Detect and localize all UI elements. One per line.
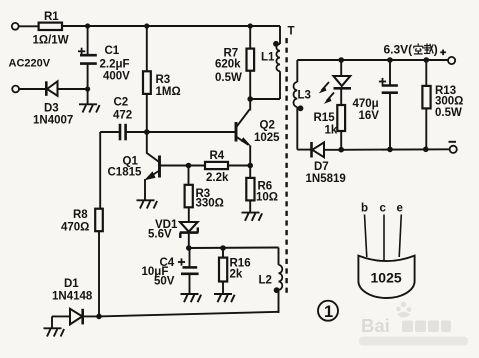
node Q2 emitter / R4 / R6 bbox=[247, 163, 253, 169]
svg-text:L1: L1 bbox=[261, 52, 275, 64]
wire bbox=[19, 88, 46, 90]
svg-text:Bai: Bai bbox=[361, 315, 390, 336]
resistor R4 bbox=[189, 150, 251, 184]
svg-text:b: b bbox=[361, 203, 368, 215]
circled number 1 bbox=[318, 301, 338, 321]
transformer core dashed line bbox=[285, 38, 287, 295]
svg-text:1: 1 bbox=[324, 303, 333, 321]
resistor R15 bbox=[314, 105, 346, 150]
node cap bottom bbox=[387, 147, 393, 153]
diode D1 bbox=[52, 278, 99, 324]
svg-text:400V: 400V bbox=[103, 71, 130, 83]
transistor package 1025 bbox=[358, 256, 414, 298]
wire bottom rail bbox=[99, 312, 279, 317]
terminal AC input bottom bbox=[12, 86, 19, 93]
svg-text:1k: 1k bbox=[325, 125, 338, 137]
pinout lead e bbox=[399, 215, 401, 258]
zener VD1 bbox=[148, 207, 198, 248]
ground below R16 bbox=[214, 294, 235, 302]
transistor Q2 bbox=[236, 99, 280, 166]
capacitor C1 bbox=[78, 26, 130, 89]
svg-text:1025: 1025 bbox=[371, 270, 402, 286]
svg-text:C2: C2 bbox=[114, 97, 129, 109]
svg-text:D3: D3 bbox=[44, 103, 59, 115]
node R7/L1 bottom bbox=[247, 96, 253, 102]
svg-text:620k: 620k bbox=[215, 59, 241, 71]
node Q1 collector / R4 / R5 bbox=[186, 163, 192, 169]
node R16 top bbox=[220, 245, 226, 251]
svg-text:470Ω: 470Ω bbox=[61, 222, 89, 234]
wire base row to Q2 bbox=[147, 131, 236, 133]
watermark baidu jingyan bbox=[359, 302, 468, 346]
wire top rail bbox=[62, 25, 280, 27]
svg-text:T: T bbox=[288, 26, 295, 38]
inductor L1 primary bbox=[250, 26, 280, 99]
svg-text:0.5W: 0.5W bbox=[215, 72, 242, 84]
svg-text:50V: 50V bbox=[154, 276, 175, 288]
wire bbox=[87, 89, 89, 104]
svg-text:L2: L2 bbox=[259, 275, 272, 287]
ground left of D1 bbox=[44, 316, 65, 336]
resistor R13 bbox=[422, 60, 463, 149]
capacitor C4 bbox=[142, 248, 199, 294]
capacitor 470u bbox=[353, 60, 398, 150]
svg-text:AC220V: AC220V bbox=[9, 58, 51, 70]
svg-text:D1: D1 bbox=[64, 278, 79, 290]
node R13 top bbox=[424, 57, 430, 63]
node D1/R8/bottom rail bbox=[96, 314, 102, 320]
svg-text:1N5819: 1N5819 bbox=[306, 173, 346, 185]
capacitor C2 bbox=[100, 97, 147, 141]
resistor R7 bbox=[215, 26, 254, 99]
label minus bbox=[449, 141, 457, 143]
wire secondary bottom rail bbox=[341, 148, 449, 151]
terminal AC input top bbox=[12, 23, 19, 30]
secondary top rail bbox=[297, 59, 447, 61]
node top of R7 bbox=[248, 23, 253, 28]
hanzi zai bbox=[424, 43, 434, 53]
inductor L2 primary feedback bbox=[259, 248, 283, 314]
node top of C1 bbox=[85, 23, 90, 28]
ground below C4 bbox=[181, 294, 202, 302]
transistor Q1 bbox=[108, 156, 189, 201]
svg-text:330Ω: 330Ω bbox=[196, 198, 224, 210]
svg-text:1N4007: 1N4007 bbox=[33, 115, 73, 127]
svg-text:10Ω: 10Ω bbox=[256, 192, 278, 204]
node A (C2/R3/bases) bbox=[144, 129, 150, 135]
svg-text:C1815: C1815 bbox=[108, 167, 142, 179]
ground below Q1 emitter bbox=[137, 200, 158, 208]
wire bbox=[19, 25, 39, 27]
node VD1/C4 bbox=[186, 245, 192, 251]
resistor R8 bbox=[61, 132, 103, 316]
node R13 bottom bbox=[423, 147, 429, 153]
hanzi kong bbox=[414, 43, 423, 54]
svg-text:2.2k: 2.2k bbox=[206, 172, 229, 184]
node top of R3 bbox=[144, 23, 149, 28]
node cap top bbox=[387, 57, 393, 63]
svg-text:1Ω/1W: 1Ω/1W bbox=[33, 35, 69, 47]
svg-text:1N4148: 1N4148 bbox=[52, 291, 93, 303]
svg-text:): ) bbox=[434, 43, 438, 57]
LED indicator bbox=[319, 60, 351, 105]
wire down to Q1 base bbox=[147, 132, 159, 162]
svg-text:R1: R1 bbox=[44, 11, 59, 23]
svg-text:Q2: Q2 bbox=[260, 120, 275, 132]
node C1 bottom / D3 bbox=[85, 86, 90, 91]
wire node row bbox=[189, 247, 279, 250]
resistor R6 bbox=[246, 166, 278, 213]
svg-text:e: e bbox=[397, 203, 403, 215]
terminal - output bbox=[450, 146, 457, 153]
node R15 bottom bbox=[338, 147, 344, 153]
svg-text:L3: L3 bbox=[298, 90, 311, 102]
resistor R3 1M bbox=[143, 26, 181, 132]
svg-text:R3: R3 bbox=[156, 74, 171, 86]
svg-text:0.5W: 0.5W bbox=[435, 107, 462, 119]
pinout lead c bbox=[383, 215, 385, 262]
diode D7 bbox=[297, 142, 345, 185]
svg-text:5.6V: 5.6V bbox=[148, 229, 172, 241]
svg-text:16V: 16V bbox=[359, 110, 380, 122]
pinout lead b bbox=[365, 215, 367, 258]
svg-text:2.2μF: 2.2μF bbox=[100, 59, 130, 71]
ground below C1 bbox=[79, 104, 100, 112]
svg-text:6.3V(: 6.3V( bbox=[384, 43, 413, 57]
ground below R6 bbox=[242, 213, 263, 221]
svg-text:D7: D7 bbox=[314, 161, 329, 173]
label plus bbox=[440, 50, 446, 56]
node LED top bbox=[338, 57, 344, 63]
resistor R1 bbox=[33, 11, 69, 47]
svg-text:R8: R8 bbox=[73, 209, 88, 221]
svg-text:C1: C1 bbox=[105, 45, 120, 57]
resistor R16 bbox=[219, 248, 251, 294]
svg-text:c: c bbox=[380, 203, 387, 215]
terminal + output bbox=[448, 57, 455, 64]
svg-text:2k: 2k bbox=[230, 269, 243, 281]
svg-text:300Ω: 300Ω bbox=[435, 96, 463, 108]
svg-text:1MΩ: 1MΩ bbox=[156, 86, 181, 98]
inductor L3 secondary bbox=[293, 60, 310, 150]
svg-text:R15: R15 bbox=[314, 112, 336, 124]
diode D3 bbox=[33, 81, 88, 126]
svg-text:R4: R4 bbox=[210, 150, 225, 162]
svg-text:472: 472 bbox=[113, 110, 132, 122]
svg-text:470μ: 470μ bbox=[353, 98, 379, 110]
svg-text:1025: 1025 bbox=[254, 132, 280, 144]
resistor R3 330 bbox=[185, 166, 224, 210]
